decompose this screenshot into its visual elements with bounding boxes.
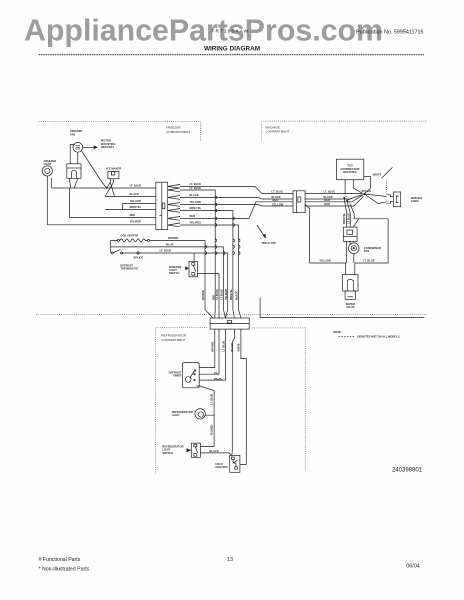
- wire YEL/RED freezer: [47, 224, 156, 226]
- wire overload to box corner: [353, 219, 358, 227]
- wire BLACK to machine connector: [180, 198, 293, 200]
- wire freezer light switch out: [198, 274, 220, 319]
- wire overload to fan: [349, 241, 351, 244]
- node coil heater left splice: [117, 239, 119, 241]
- svg-text:SWITCH: SWITCH: [169, 271, 180, 275]
- wire freezer fan left lead: [70, 145, 75, 164]
- svg-text:BLUE: BLUE: [166, 243, 173, 247]
- svg-text:BROWN: BROWN: [212, 342, 215, 352]
- coil heater element: [111, 239, 156, 242]
- node splice machine: [363, 193, 365, 195]
- wire BLUE: [111, 247, 226, 318]
- connector C2 left labels: [271, 189, 283, 206]
- wire tco mid leg: [353, 180, 362, 194]
- svg-text:BLACK: BLACK: [210, 449, 219, 453]
- wire compressor box bottom to valve: [354, 263, 356, 275]
- service cord body: [393, 192, 400, 207]
- svg-text:BLACK: BLACK: [190, 193, 199, 197]
- svg-text:YELLOW: YELLOW: [319, 259, 331, 263]
- svg-text:RED: RED: [130, 213, 136, 217]
- svg-text:WIRING DIAGRAM: WIRING DIAGRAM: [204, 46, 260, 53]
- svg-text:COMPARTMENT: COMPARTMENT: [166, 130, 190, 134]
- svg-text:COMPARTMENT: COMPARTMENT: [161, 338, 185, 342]
- freezer fan connector plug: [67, 164, 81, 188]
- svg-text:RED: RED: [324, 202, 330, 206]
- freezer light bulb: [42, 166, 52, 176]
- svg-text:LT. BLUE: LT. BLUE: [160, 248, 172, 252]
- svg-text:LT. BLUE: LT. BLUE: [271, 189, 283, 193]
- svg-text:LT. BLUE: LT. BLUE: [216, 289, 219, 300]
- connector C3 refrigerator disconnect: [210, 318, 249, 329]
- relay drop labels: [343, 213, 350, 224]
- machine compartment bottom line: [260, 298, 424, 318]
- svg-text:LT. BLUE: LT. BLUE: [363, 259, 375, 263]
- wire YEL/RED branch down: [180, 225, 241, 318]
- cold control box: [230, 455, 240, 472]
- svg-text:SWITCH: SWITCH: [162, 451, 173, 455]
- machine compartment border: [262, 121, 427, 140]
- wire overload left down: [346, 241, 348, 263]
- wire crossover humps freezer bundle: [205, 196, 240, 255]
- svg-text:240398801: 240398801: [392, 468, 423, 474]
- svg-text:BLACK: BLACK: [236, 291, 239, 300]
- wire tco right leg: [364, 177, 371, 194]
- freezer fan motor: [73, 142, 83, 152]
- wire fan plug to red wire: [68, 188, 70, 218]
- connector C1 freezer disconnect: [156, 182, 168, 229]
- compressor circuit box: [353, 219, 388, 263]
- svg-text:PINCH OFF: PINCH OFF: [262, 241, 277, 245]
- wire BLACK machine: [305, 195, 362, 200]
- svg-text:COMPARTMENT: COMPARTMENT: [265, 130, 289, 134]
- svg-text:YELLOW: YELLOW: [272, 202, 284, 206]
- svg-text:BRN/YEL: BRN/YEL: [130, 205, 142, 209]
- wire BROWN coil heater: [156, 240, 213, 318]
- svg-text:13: 13: [227, 557, 233, 563]
- white wire dashed drop: [386, 181, 388, 195]
- svg-text:YELLOW: YELLOW: [130, 199, 142, 203]
- refr wire humps: [214, 373, 221, 380]
- refrigerator compartment border: [156, 328, 306, 474]
- ice maker box: [108, 171, 119, 178]
- wire LT. BLUE to machine connector: [180, 187, 293, 194]
- wire freezer light switch top: [193, 253, 195, 261]
- condenser fan motor: [349, 243, 360, 254]
- svg-text:MOUNTED: MOUNTED: [343, 170, 357, 174]
- svg-text:LT. BLUE: LT. BLUE: [130, 184, 142, 188]
- svg-text:LT. BLUE: LT. BLUE: [348, 213, 351, 224]
- svg-text:BRN/YEL: BRN/YEL: [230, 289, 233, 300]
- svg-text:BLACK: BLACK: [130, 192, 139, 196]
- wire tco left leg: [344, 180, 346, 194]
- freezer compartment border: [39, 122, 201, 142]
- defrost thermostat: [111, 250, 122, 254]
- svg-text:06/04: 06/04: [406, 564, 420, 570]
- tco box: [336, 159, 363, 180]
- svg-text:LIGHT: LIGHT: [172, 413, 180, 417]
- connector C2 machine disconnect: [293, 191, 305, 213]
- svg-text:SPLICE: SPLICE: [362, 189, 372, 193]
- motor mounting bracket leader arrow: [83, 146, 97, 149]
- wire RED machine: [305, 195, 362, 202]
- wire BROWN refr: [199, 329, 215, 367]
- svg-text:THERMOSTAT: THERMOSTAT: [120, 267, 138, 271]
- connector C1 right labels: [190, 182, 202, 224]
- svg-text:YEL/RED: YEL/RED: [190, 221, 202, 225]
- wire LT. BLUE machine: [305, 193, 362, 195]
- svg-text:YEL/RED: YEL/RED: [211, 424, 214, 435]
- svg-text:LT. BLUE: LT. BLUE: [190, 182, 202, 186]
- node coil heater right splice: [148, 239, 150, 241]
- svg-text:* Non-Illustrated Parts: * Non-Illustrated Parts: [39, 566, 90, 572]
- svg-text:WHITE: WHITE: [373, 173, 382, 177]
- svg-text:RED: RED: [273, 198, 279, 202]
- wire BLACK refr to cold control: [232, 329, 235, 455]
- svg-text:WHITE: WHITE: [238, 343, 241, 351]
- wire freezer light upper lead: [50, 178, 52, 188]
- svg-text:DENOTES NOT ON ALL MODELS.: DENOTES NOT ON ALL MODELS.: [358, 335, 401, 339]
- wire LT. BLUE branch down: [180, 190, 215, 318]
- vertical bundle labels: [202, 289, 239, 300]
- wire LT. BLUE defrost: [123, 253, 228, 318]
- svg-text:BRN/YEL: BRN/YEL: [343, 213, 346, 224]
- svg-text:SPLICE: SPLICE: [134, 255, 144, 259]
- node splice defrost: [137, 252, 139, 254]
- svg-text:TIMER: TIMER: [173, 374, 181, 378]
- svg-text:BRN/YEL: BRN/YEL: [190, 206, 202, 210]
- section divider dashed line: [36, 314, 427, 316]
- svg-text:LT. BLUE: LT. BLUE: [211, 393, 214, 404]
- svg-text:RED: RED: [190, 214, 196, 218]
- svg-text:YELLOW: YELLOW: [190, 200, 202, 204]
- wire BLACK switch to cold control: [200, 453, 231, 456]
- wire light to switch yel/red: [200, 415, 214, 446]
- svg-text:COIL HEATER: COIL HEATER: [120, 233, 138, 237]
- ice maker leads: [105, 179, 115, 197]
- svg-text:RED: RED: [324, 198, 330, 202]
- wire coil heater left drop: [110, 240, 112, 253]
- relay drop arrows: [344, 196, 350, 202]
- wire BRN/YEL freezer: [105, 209, 156, 211]
- svg-text:CORD: CORD: [411, 199, 419, 203]
- svg-text:BROWN: BROWN: [168, 236, 178, 240]
- svg-text:LT. BLUE: LT. BLUE: [222, 340, 225, 351]
- connector C2 right labels: [324, 189, 336, 206]
- wire YELLOW freezer: [123, 204, 156, 210]
- white wire diagonal: [382, 167, 393, 178]
- connector C1 plug arrows: [168, 184, 180, 226]
- wire WHITE refr to cold control: [240, 329, 246, 464]
- wire YELLOW to machine connector: [180, 205, 293, 207]
- connector C3 below labels: [212, 340, 241, 351]
- wire freezer light to yel/red: [46, 176, 48, 225]
- relay drop wires: [344, 198, 354, 227]
- svg-text:FAN: FAN: [364, 249, 369, 253]
- motor mounting bracket diagonal: [82, 151, 107, 188]
- node ice maker junction: [106, 187, 108, 189]
- refrigerator light bulb: [195, 409, 205, 419]
- freezer light switch: [185, 261, 197, 276]
- water valve: [343, 275, 359, 300]
- svg-text:BROWN: BROWN: [202, 290, 205, 300]
- svg-text:BLACK: BLACK: [231, 343, 234, 352]
- wire RED2 machine: [305, 196, 363, 206]
- header rule: [39, 54, 424, 56]
- service cord plug prongs: [386, 195, 393, 203]
- svg-text:Publication No. 5995411716: Publication No. 5995411716: [356, 30, 423, 36]
- svg-text:AppliancePartsPros.com: AppliancePartsPros.com: [24, 14, 383, 48]
- svg-text:BRACKET: BRACKET: [101, 145, 114, 149]
- wire refr timer third: [199, 329, 225, 380]
- wire timer out lt blue: [197, 386, 215, 415]
- wire LT. BLUE freezer: [51, 187, 156, 189]
- svg-text:YEL/RED: YEL/RED: [225, 289, 228, 300]
- svg-text:NOTE:: NOTE:: [334, 330, 342, 334]
- wire LT BLUE refr: [199, 329, 219, 374]
- wire fan down: [353, 254, 355, 264]
- svg-text:CONTROL: CONTROL: [215, 465, 229, 469]
- svg-text:YEL/RED: YEL/RED: [130, 220, 142, 224]
- overload relay box: [343, 227, 357, 241]
- svg-text:LT. BLUE: LT. BLUE: [221, 289, 224, 300]
- defrost timer box: [182, 363, 199, 388]
- wire RED to machine connector: [180, 202, 293, 219]
- wire BRN/YEL branch down: [180, 211, 234, 319]
- svg-text:FRT18S4AW: FRT18S4AW: [212, 29, 249, 35]
- svg-text:RED: RED: [212, 295, 215, 300]
- wire RED freezer: [69, 217, 155, 219]
- svg-text:LT. BLUE: LT. BLUE: [324, 189, 336, 193]
- pinch-off leader arrow: [257, 225, 266, 239]
- refrigerator light switch: [187, 443, 201, 457]
- wire splice to service cord low: [364, 194, 386, 204]
- wire YELLOW drop from C2: [305, 204, 346, 274]
- svg-text:FAN: FAN: [70, 132, 75, 136]
- svg-text:ICE MAKER: ICE MAKER: [106, 167, 121, 171]
- note dashes: [339, 335, 355, 337]
- wire splice to service cord: [364, 194, 386, 197]
- svg-text:# Functional Parts: # Functional Parts: [39, 557, 81, 563]
- svg-text:VALVE: VALVE: [346, 305, 355, 309]
- wire BLACK freezer: [105, 196, 156, 198]
- svg-text:LIGHT: LIGHT: [44, 162, 52, 166]
- wire freezer fan right lead: [77, 152, 79, 164]
